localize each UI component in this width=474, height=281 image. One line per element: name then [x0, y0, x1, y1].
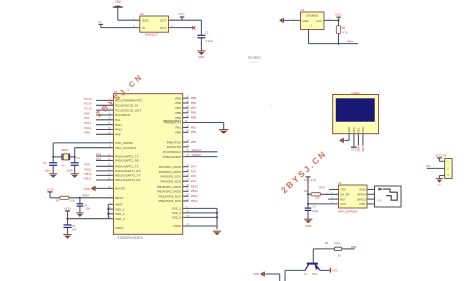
svg-text:PB1: PB1	[175, 126, 181, 130]
svg-text:CH_PD: CH_PD	[340, 193, 349, 197]
svg-text:VCC: VCC	[178, 12, 185, 16]
svg-text:PA1: PA1	[85, 116, 91, 120]
svg-text:PB7: PB7	[175, 106, 181, 110]
svg-text:VCC: VCC	[332, 268, 338, 272]
svg-text:PA1: PA1	[115, 118, 121, 122]
svg-text:PB10/USART3_TX: PB10/USART3_TX	[115, 174, 140, 178]
svg-text:GPIO0: GPIO0	[357, 193, 366, 197]
svg-text:VSS_2: VSS_2	[172, 211, 182, 215]
svg-text:NRST: NRST	[82, 193, 90, 197]
svg-text:PA4: PA4	[191, 179, 197, 183]
svg-text:PB7: PB7	[191, 106, 197, 110]
svg-text:+5V: +5V	[115, 0, 122, 4]
svg-text:PA15/JTDI: PA15/JTDI	[167, 145, 181, 149]
svg-text:VCC: VCC	[340, 202, 346, 206]
svg-text:PA12: PA12	[85, 126, 92, 130]
svg-text:PB3: PB3	[191, 140, 197, 144]
svg-text:OUT: OUT	[160, 26, 167, 30]
svg-text:GND: GND	[305, 224, 311, 228]
svg-text:PA10: PA10	[85, 167, 92, 171]
svg-text:STM32F103C8T6: STM32F103C8T6	[117, 236, 143, 240]
svg-text:PB6: PB6	[175, 101, 181, 105]
svg-text:GND: GND	[302, 19, 308, 23]
svg-text:PB9: PB9	[191, 116, 197, 120]
svg-text:RST: RST	[340, 197, 346, 201]
svg-text:22pF: 22pF	[66, 168, 73, 172]
svg-text:PA6: PA6	[191, 170, 197, 174]
svg-text:PA2/USART2_TX: PA2/USART2_TX	[115, 154, 139, 158]
svg-text:PB5: PB5	[191, 96, 197, 100]
svg-text:PB8: PB8	[191, 111, 197, 115]
svg-text:PA3/USART2_RX: PA3/USART2_RX	[115, 159, 139, 163]
svg-text:SCL: SCL	[357, 127, 361, 133]
svg-text:PB13: PB13	[191, 194, 198, 198]
svg-text:PB3/JTDO: PB3/JTDO	[167, 140, 182, 144]
svg-text:VCC: VCC	[335, 12, 342, 16]
svg-text:VSS_3: VSS_3	[172, 216, 182, 220]
svg-text:PB13/SPI2_SCK: PB13/SPI2_SCK	[159, 194, 182, 198]
svg-text:PA4/SPI1_NSS: PA4/SPI1_NSS	[160, 179, 181, 183]
svg-text:SWDIO: SWDIO	[192, 153, 202, 157]
svg-text:PA2: PA2	[96, 153, 102, 157]
svg-text:PB11/USART3_RX: PB11/USART3_RX	[115, 178, 141, 182]
svg-text:U3: U3	[300, 8, 304, 12]
svg-text:PA0: PA0	[85, 111, 91, 115]
svg-text:PA5: PA5	[191, 174, 197, 178]
svg-text:PB10: PB10	[85, 172, 92, 176]
svg-text:VDD_1: VDD_1	[115, 207, 125, 211]
svg-text:OUT: OUT	[160, 19, 167, 23]
svg-text:PA8: PA8	[115, 133, 121, 137]
svg-text:C3: C3	[76, 156, 80, 160]
svg-text:C1: C1	[205, 30, 209, 34]
svg-text:TXD: TXD	[340, 188, 346, 192]
svg-text:SDA: SDA	[361, 127, 365, 133]
svg-text:GND: GND	[347, 127, 351, 133]
svg-text:+3.3V: +3.3V	[64, 206, 72, 210]
svg-text:GND: GND	[253, 272, 259, 276]
svg-text:PB2/BOOT1: PB2/BOOT1	[164, 121, 181, 125]
svg-text:IN: IN	[142, 26, 145, 30]
svg-text:PC14: PC14	[85, 102, 92, 106]
svg-text:+3.3V: +3.3V	[46, 187, 54, 191]
svg-text:GPIO2: GPIO2	[357, 197, 366, 201]
svg-text:PA10/USART1_RX: PA10/USART1_RX	[115, 169, 141, 173]
svg-text:PB3: PB3	[351, 245, 357, 249]
svg-text:PA7/SPI1_MOSI: PA7/SPI1_MOSI	[159, 165, 181, 169]
svg-text:PB15/SPI2_MOSI: PB15/SPI2_MOSI	[157, 185, 181, 189]
svg-text:RXD: RXD	[359, 202, 365, 206]
svg-text:PB12/SPI2_NSS: PB12/SPI2_NSS	[159, 199, 182, 203]
svg-text:PA12: PA12	[115, 128, 122, 132]
svg-text:+5V: +5V	[97, 21, 102, 24]
svg-text:DS18B20: DS18B20	[248, 55, 261, 59]
svg-text:VDDA: VDDA	[115, 226, 123, 230]
svg-text:PB6: PB6	[191, 101, 197, 105]
svg-text:PA4: PA4	[347, 40, 353, 44]
svg-text:JTCK/SWCLK: JTCK/SWCLK	[162, 150, 181, 154]
svg-text:PA11: PA11	[115, 123, 122, 127]
svg-text:GND: GND	[359, 188, 365, 192]
svg-text:PB14: PB14	[191, 189, 198, 193]
svg-text:SWCLK: SWCLK	[192, 148, 202, 152]
svg-text:GND: GND	[142, 19, 150, 23]
svg-text:PB12: PB12	[191, 199, 198, 203]
svg-text:GND: GND	[198, 55, 204, 59]
svg-text:PB5: PB5	[175, 96, 181, 100]
svg-text:GND: GND	[377, 200, 383, 203]
svg-text:VDD_3: VDD_3	[115, 217, 125, 221]
svg-text:JTMS/SWDIO: JTMS/SWDIO	[162, 155, 181, 159]
svg-text:22pF: 22pF	[44, 168, 51, 172]
svg-text:PB8: PB8	[175, 111, 181, 115]
svg-text:PA6/SPI1_MISO: PA6/SPI1_MISO	[159, 170, 182, 174]
svg-text:GND: GND	[437, 184, 442, 186]
svg-text:PC13: PC13	[85, 97, 92, 101]
svg-text:PB14/SPI2_MISO: PB14/SPI2_MISO	[157, 190, 182, 194]
svg-text:PC15/OSC32_OUT: PC15/OSC32_OUT	[115, 108, 141, 112]
svg-text:AMS1117: AMS1117	[145, 33, 158, 37]
svg-text:VCC: VCC	[316, 19, 322, 23]
svg-text:PA3: PA3	[96, 157, 102, 161]
svg-text:GND: GND	[84, 187, 90, 191]
svg-text:PA11: PA11	[85, 121, 92, 125]
svg-text:PA9: PA9	[85, 163, 91, 167]
svg-text:PB15: PB15	[191, 185, 198, 189]
svg-text:C2: C2	[43, 161, 47, 165]
svg-text:U2: U2	[140, 12, 144, 16]
svg-text:PA5/SPI1_SCK: PA5/SPI1_SCK	[160, 175, 181, 179]
svg-text:Y1: Y1	[61, 163, 65, 167]
svg-text:PC15: PC15	[85, 107, 92, 111]
svg-text:PA9/USART1_TX: PA9/USART1_TX	[115, 165, 139, 169]
svg-text:PB0: PB0	[175, 131, 181, 135]
svg-text:PC14/OSC32_IN: PC14/OSC32_IN	[115, 104, 138, 108]
svg-text:0.1uF: 0.1uF	[206, 39, 213, 43]
svg-text:DS18B20: DS18B20	[249, 62, 259, 64]
svg-text:WIFI_ESP8266: WIFI_ESP8266	[338, 210, 358, 214]
svg-text:VCC: VCC	[352, 127, 356, 133]
svg-text:VBAT: VBAT	[115, 203, 123, 207]
svg-text:PA7: PA7	[191, 165, 197, 169]
svg-text:VDD_2: VDD_2	[115, 212, 125, 216]
svg-text:PB11: PB11	[85, 176, 92, 180]
svg-text:VSS_1: VSS_1	[172, 207, 182, 211]
svg-text:VSSA: VSSA	[173, 224, 181, 228]
svg-text:BOOT0: BOOT0	[115, 187, 126, 191]
svg-text:OSC_OUT/PD1: OSC_OUT/PD1	[115, 146, 137, 150]
svg-text:OSC_IN/PD0: OSC_IN/PD0	[115, 141, 133, 145]
svg-text:PA0-WKUP: PA0-WKUP	[115, 113, 130, 117]
svg-text:NRST: NRST	[115, 196, 123, 200]
svg-text:DS18B20: DS18B20	[306, 13, 318, 17]
svg-text:PB1: PB1	[191, 125, 197, 129]
svg-text:PA8: PA8	[85, 131, 91, 135]
svg-text:PB0: PB0	[191, 130, 197, 134]
svg-text:8MHz: 8MHz	[61, 148, 69, 152]
